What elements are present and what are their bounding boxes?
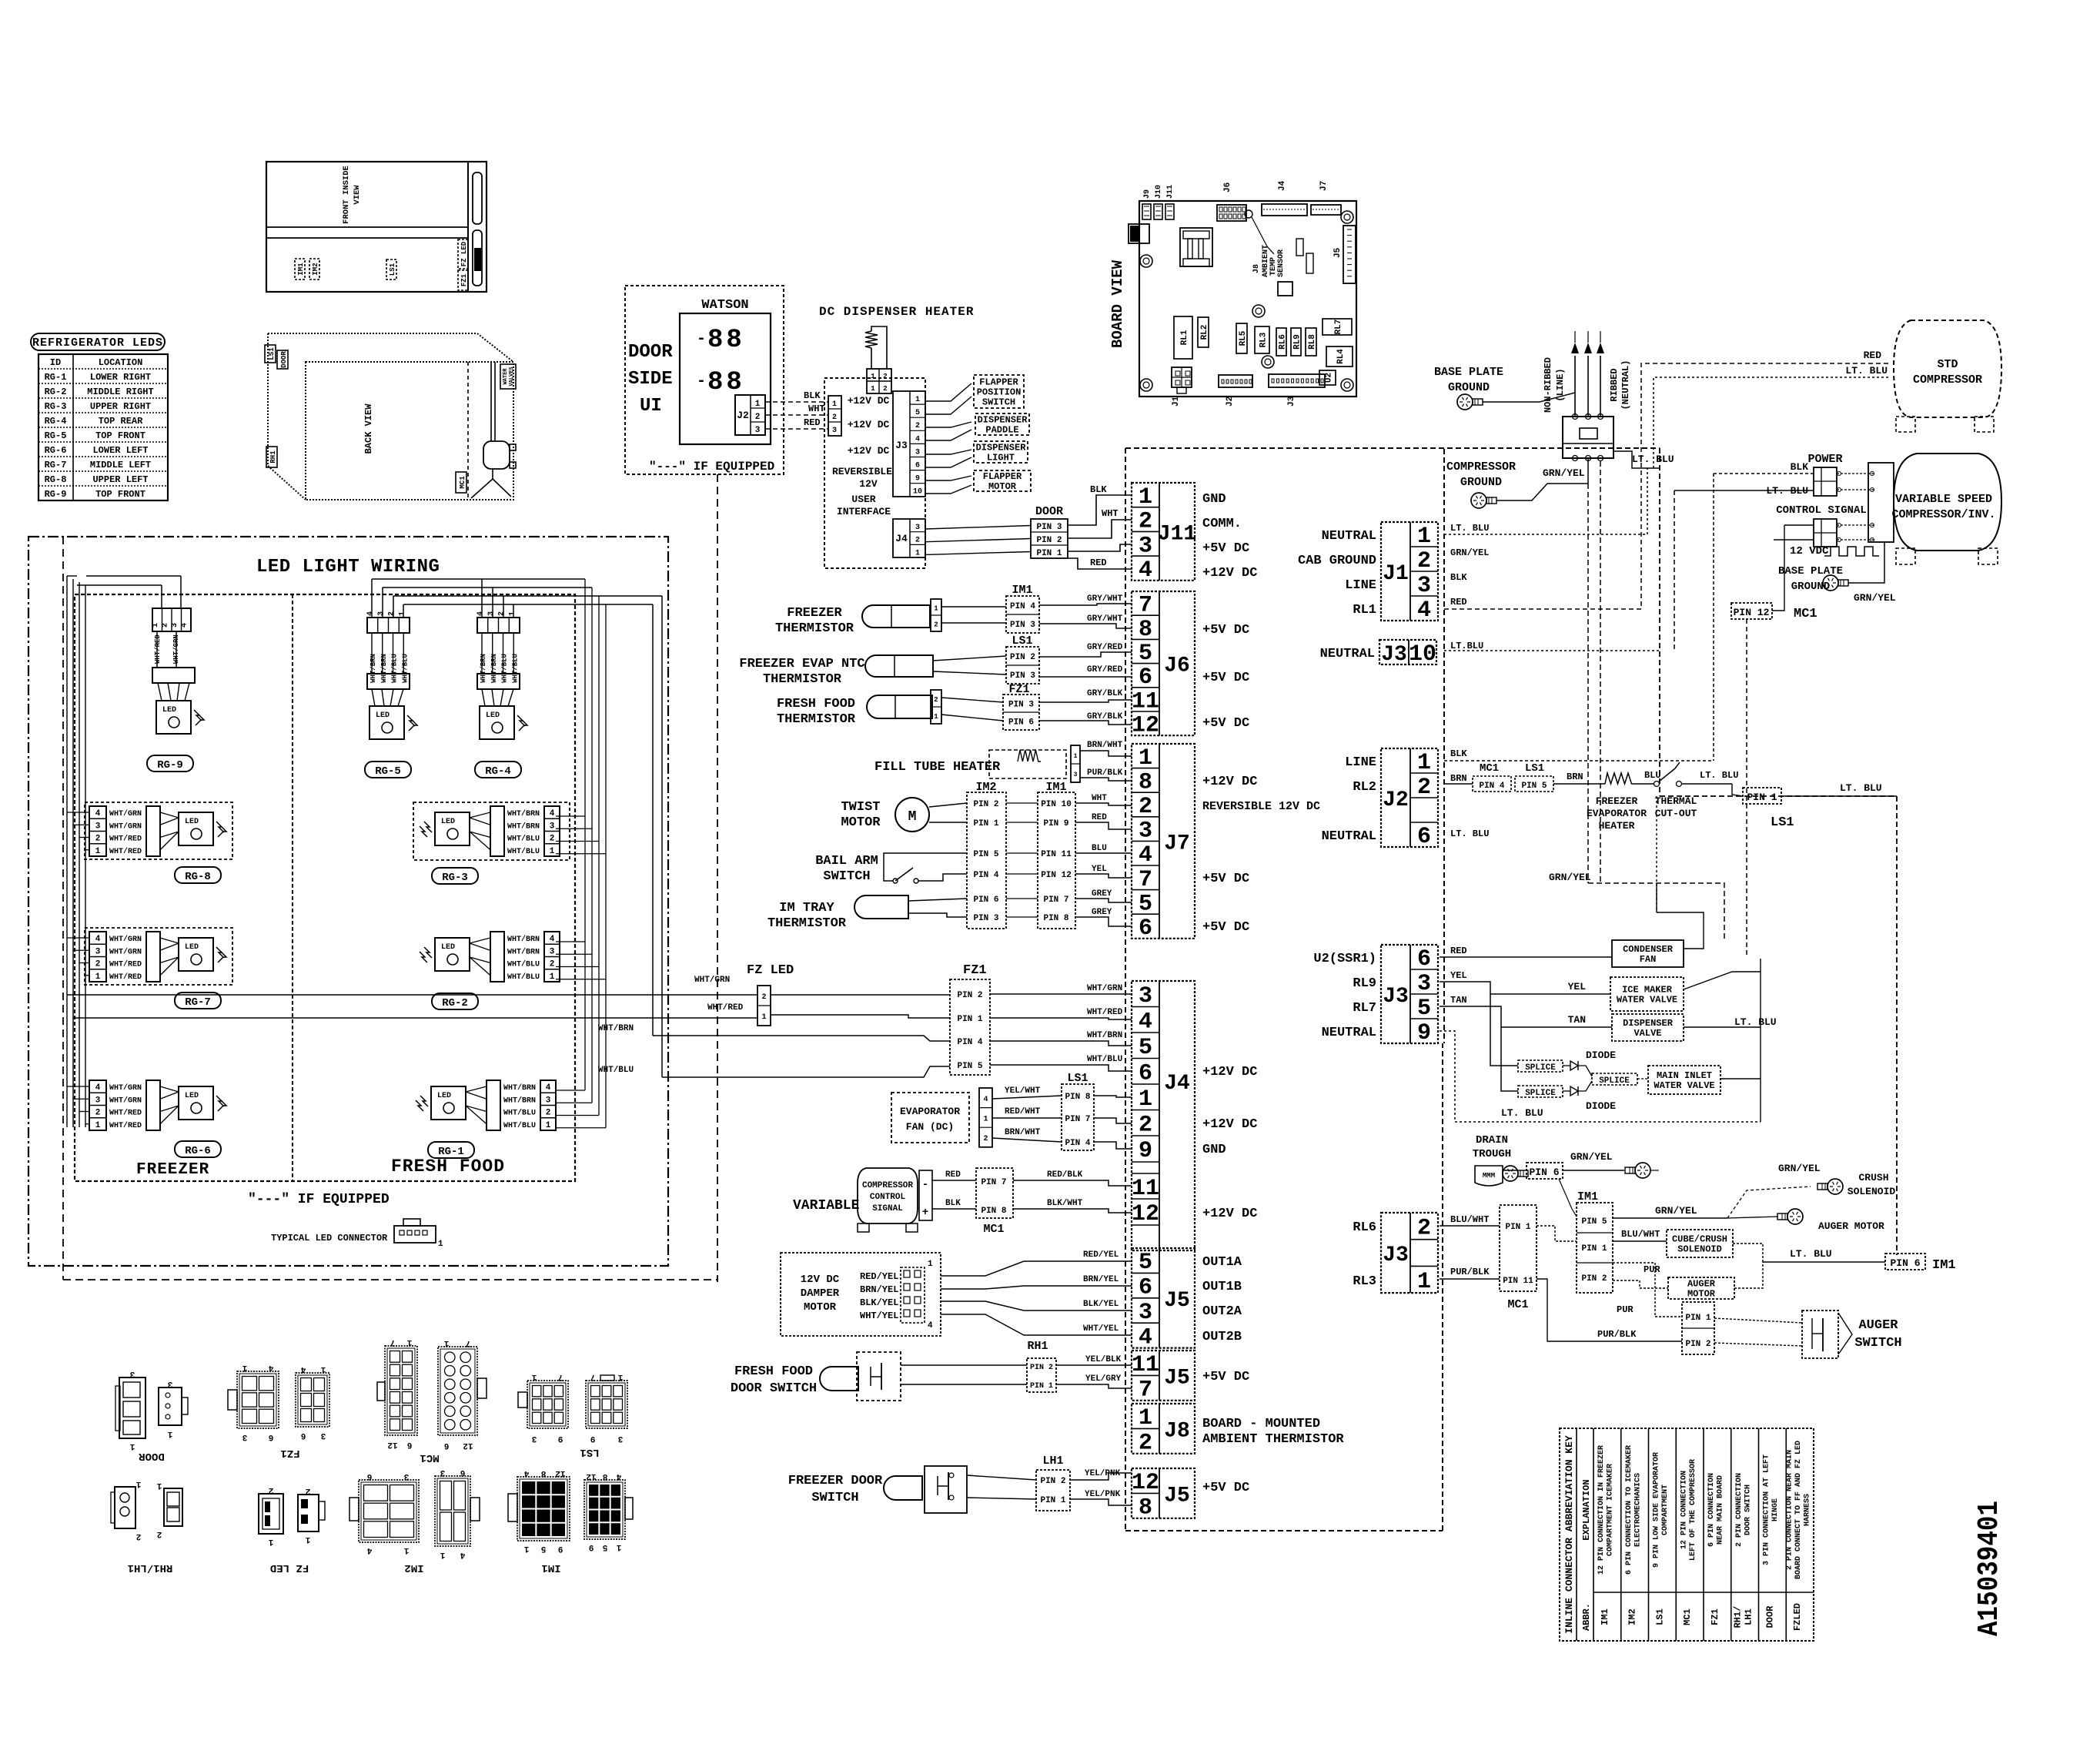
svg-text:IM1: IM1	[297, 263, 305, 276]
svg-text:RG-9: RG-9	[45, 489, 67, 500]
svg-text:CONTROL SIGNAL: CONTROL SIGNAL	[1776, 504, 1867, 517]
svg-text:LS1: LS1	[580, 1446, 599, 1458]
svg-text:WHT/GRN: WHT/GRN	[109, 947, 142, 956]
svg-text:HINGE: HINGE	[1771, 1498, 1780, 1521]
svg-text:4: 4	[95, 809, 101, 818]
svg-text:PIN 3: PIN 3	[1010, 621, 1035, 630]
svg-text:FAN (DC): FAN (DC)	[906, 1121, 954, 1133]
svg-text:RED: RED	[1450, 597, 1467, 608]
svg-text:3: 3	[1139, 983, 1152, 1009]
svg-text:2: 2	[1417, 775, 1431, 801]
svg-text:HARNESS: HARNESS	[1804, 1494, 1812, 1526]
svg-text:6: 6	[915, 462, 920, 470]
svg-text:PIN 1: PIN 1	[957, 1015, 982, 1024]
svg-text:SWITCH: SWITCH	[811, 1491, 858, 1505]
svg-text:ELECTROMECHANICS: ELECTROMECHANICS	[1634, 1473, 1642, 1547]
svg-text:RG-3: RG-3	[442, 872, 468, 884]
svg-text:IM2: IM2	[1627, 1608, 1638, 1625]
svg-text:PIN 1: PIN 1	[1685, 1314, 1710, 1323]
svg-text:4: 4	[915, 435, 920, 444]
svg-text:1: 1	[928, 1260, 933, 1269]
svg-text:5: 5	[915, 409, 920, 417]
svg-text:SOLENOID: SOLENOID	[1848, 1186, 1896, 1197]
svg-text:9: 9	[1417, 1020, 1431, 1046]
svg-text:2: 2	[1139, 1112, 1152, 1138]
svg-text:DOOR: DOOR	[1764, 1605, 1775, 1629]
svg-text:PIN 2: PIN 2	[1036, 536, 1062, 545]
svg-text:TAN: TAN	[1568, 1014, 1586, 1026]
svg-text:COMPARTMENT ICEMAKER: COMPARTMENT ICEMAKER	[1607, 1464, 1615, 1556]
svg-text:LIGHT: LIGHT	[987, 453, 1015, 464]
svg-text:RL7: RL7	[1334, 320, 1343, 335]
svg-text:IM1: IM1	[541, 1562, 560, 1574]
svg-text:RED: RED	[1092, 813, 1107, 822]
svg-text:WHT/BRN: WHT/BRN	[480, 654, 487, 683]
svg-text:DISPENSER: DISPENSER	[978, 415, 1028, 426]
svg-text:PIN 5: PIN 5	[1581, 1217, 1607, 1227]
svg-text:SWITCH: SWITCH	[982, 397, 1015, 408]
svg-text:LED: LED	[441, 818, 455, 826]
svg-text:RL9: RL9	[1293, 334, 1302, 350]
svg-text:J11: J11	[1166, 185, 1175, 199]
svg-text:+12V DC: +12V DC	[848, 395, 890, 407]
svg-text:BRN: BRN	[1567, 772, 1583, 782]
svg-text:REVERSIBLE 12V DC: REVERSIBLE 12V DC	[1202, 800, 1320, 813]
svg-text:COMPRESSOR: COMPRESSOR	[1913, 373, 1982, 387]
svg-text:PIN 2: PIN 2	[1581, 1274, 1607, 1284]
svg-text:PIN 2: PIN 2	[1040, 1477, 1065, 1486]
svg-text:WHT/BLU: WHT/BLU	[391, 654, 399, 683]
svg-text:FZ LED: FZ LED	[460, 241, 468, 266]
svg-text:AMBIENT THERMISTOR: AMBIENT THERMISTOR	[1202, 1432, 1344, 1447]
svg-text:PIN 2: PIN 2	[973, 800, 998, 809]
svg-text:+5V DC: +5V DC	[1202, 1370, 1249, 1384]
svg-text:12V DC: 12V DC	[801, 1274, 840, 1286]
svg-text:J1: J1	[1172, 396, 1181, 407]
svg-text:88: 88	[707, 368, 745, 397]
svg-text:6: 6	[269, 1432, 274, 1441]
svg-text:DOOR SWITCH: DOOR SWITCH	[731, 1381, 817, 1396]
svg-text:THERMAL: THERMAL	[1655, 795, 1697, 807]
svg-text:WHT/BLU: WHT/BLU	[503, 1121, 536, 1130]
svg-text:12: 12	[387, 1440, 397, 1449]
svg-text:J10: J10	[1155, 185, 1163, 199]
svg-text:9: 9	[558, 1544, 563, 1553]
svg-text:WHT/GRN: WHT/GRN	[694, 976, 730, 985]
svg-text:FREEZER DOOR: FREEZER DOOR	[788, 1474, 883, 1488]
svg-text:"---" IF EQUIPPED: "---" IF EQUIPPED	[649, 460, 774, 474]
svg-text:FZ1: FZ1	[1710, 1608, 1720, 1625]
svg-text:WHT/BRN: WHT/BRN	[503, 1083, 536, 1093]
svg-text:J3: J3	[1287, 396, 1296, 407]
svg-text:WHT/BLU: WHT/BLU	[401, 654, 409, 683]
svg-text:WHT: WHT	[1102, 508, 1119, 519]
svg-text:9: 9	[558, 1434, 563, 1443]
svg-text:OUT1A: OUT1A	[1202, 1255, 1242, 1270]
svg-text:RIBBED: RIBBED	[1609, 368, 1620, 401]
svg-text:WHT/RED: WHT/RED	[707, 1003, 744, 1013]
svg-text:YEL: YEL	[1450, 970, 1467, 981]
svg-text:2 PIN CONNECTION: 2 PIN CONNECTION	[1735, 1473, 1744, 1547]
svg-text:J1: J1	[1383, 562, 1409, 586]
svg-text:4: 4	[523, 1468, 529, 1478]
svg-text:GRY/BLK: GRY/BLK	[1087, 712, 1123, 721]
svg-text:PIN 3: PIN 3	[1010, 671, 1035, 681]
svg-text:WHT/BLU: WHT/BLU	[507, 960, 540, 969]
svg-text:3: 3	[915, 524, 920, 532]
svg-text:3: 3	[1074, 772, 1078, 778]
svg-text:1: 1	[832, 400, 837, 409]
svg-text:2: 2	[883, 373, 887, 380]
svg-text:WHT/GRN: WHT/GRN	[1087, 984, 1122, 993]
svg-text:PIN 1: PIN 1	[1040, 1496, 1065, 1505]
svg-text:ID: ID	[50, 357, 61, 368]
svg-text:WATER: WATER	[503, 368, 509, 385]
svg-text:1: 1	[129, 1441, 135, 1451]
svg-text:RED/WHT: RED/WHT	[1005, 1107, 1041, 1116]
svg-text:6: 6	[301, 1431, 306, 1440]
svg-text:SIGNAL: SIGNAL	[872, 1204, 903, 1213]
svg-text:2: 2	[95, 835, 101, 844]
svg-text:WHT/GRN: WHT/GRN	[109, 1096, 142, 1105]
svg-text:1: 1	[95, 1121, 101, 1130]
svg-text:3: 3	[755, 426, 761, 435]
svg-text:1: 1	[915, 549, 920, 557]
svg-text:PIN 11: PIN 11	[1503, 1277, 1533, 1286]
svg-text:-: -	[922, 1179, 928, 1191]
svg-text:FRESH FOOD: FRESH FOOD	[777, 697, 855, 711]
svg-text:TOP FRONT: TOP FRONT	[95, 430, 145, 441]
svg-text:3: 3	[1417, 573, 1431, 599]
svg-text:UI: UI	[640, 396, 662, 417]
svg-text:WHT: WHT	[1092, 794, 1107, 803]
svg-text:3: 3	[440, 1468, 445, 1477]
svg-text:LH1: LH1	[1042, 1454, 1063, 1468]
svg-text:J2: J2	[1226, 397, 1235, 407]
svg-text:4: 4	[181, 623, 189, 628]
svg-text:LS1: LS1	[1012, 634, 1032, 648]
svg-text:BLK: BLK	[1450, 748, 1467, 759]
svg-text:COMPRESSOR: COMPRESSOR	[1446, 460, 1516, 474]
svg-text:MAIN INLET: MAIN INLET	[1657, 1070, 1712, 1081]
svg-text:CUT-OUT: CUT-OUT	[1655, 808, 1697, 819]
svg-text:1: 1	[152, 623, 160, 628]
svg-text:CUBE/CRUSH: CUBE/CRUSH	[1672, 1234, 1727, 1245]
svg-text:1: 1	[1074, 753, 1078, 760]
svg-text:BRN/YEL: BRN/YEL	[1083, 1275, 1119, 1284]
svg-text:BOARD CONNECT TO FF AND FZ LED: BOARD CONNECT TO FF AND FZ LED	[1794, 1441, 1803, 1579]
svg-text:6: 6	[1417, 824, 1431, 850]
svg-text:INTERFACE: INTERFACE	[837, 506, 891, 517]
svg-text:DAMPER: DAMPER	[801, 1287, 840, 1300]
svg-text:2: 2	[157, 1529, 162, 1538]
svg-text:4: 4	[477, 611, 485, 616]
svg-text:1: 1	[755, 400, 761, 409]
svg-text:NEUTRAL: NEUTRAL	[1322, 529, 1376, 544]
svg-text:PIN 3: PIN 3	[973, 914, 998, 923]
svg-text:IM2: IM2	[404, 1562, 423, 1574]
svg-text:1: 1	[1139, 745, 1152, 772]
svg-text:8: 8	[1139, 769, 1152, 795]
svg-text:4: 4	[1139, 1009, 1152, 1035]
svg-text:PIN 3: PIN 3	[1008, 701, 1034, 710]
svg-text:CAB GROUND: CAB GROUND	[1298, 554, 1376, 568]
svg-text:6: 6	[1139, 916, 1152, 942]
svg-text:PIN 7: PIN 7	[1065, 1115, 1090, 1124]
svg-text:12: 12	[463, 1441, 473, 1450]
svg-text:BOARD - MOUNTED: BOARD - MOUNTED	[1202, 1417, 1320, 1431]
svg-text:2: 2	[934, 696, 938, 704]
svg-text:WHT/BLU: WHT/BLU	[598, 1066, 634, 1075]
svg-text:2: 2	[755, 413, 761, 422]
svg-text:DISPENSER: DISPENSER	[976, 443, 1027, 454]
svg-text:(NEUTRAL): (NEUTRAL)	[1620, 360, 1631, 410]
svg-text:AUGER: AUGER	[1687, 1279, 1716, 1290]
svg-text:M: M	[908, 809, 917, 825]
svg-text:GROUND: GROUND	[1460, 476, 1502, 489]
svg-text:NON-RIBBED: NON-RIBBED	[1543, 357, 1553, 413]
svg-text:WHT/GRN: WHT/GRN	[109, 935, 142, 944]
svg-text:INLINE CONNECTOR ABBREVIATION: INLINE CONNECTOR ABBREVIATION KEY	[1563, 1435, 1575, 1634]
svg-text:RL1: RL1	[1180, 330, 1189, 345]
svg-text:4: 4	[550, 809, 555, 818]
svg-text:FZ1: FZ1	[963, 963, 987, 978]
svg-text:3: 3	[546, 1096, 551, 1105]
svg-text:REVERSIBLE: REVERSIBLE	[832, 466, 892, 477]
svg-text:YEL/GRY: YEL/GRY	[1085, 1374, 1122, 1384]
svg-text:PIN 2: PIN 2	[1010, 653, 1035, 662]
svg-text:RL2: RL2	[1353, 780, 1376, 795]
svg-text:WHT/BLU: WHT/BLU	[503, 1109, 536, 1118]
svg-text:1: 1	[135, 1479, 141, 1488]
svg-text:LS1: LS1	[1654, 1608, 1665, 1625]
svg-text:WHT/BRN: WHT/BRN	[503, 1096, 536, 1105]
svg-text:MC1: MC1	[459, 476, 466, 489]
svg-text:FLAPPER: FLAPPER	[983, 471, 1022, 482]
svg-text:RG-2: RG-2	[442, 997, 468, 1009]
svg-text:PIN 11: PIN 11	[1041, 850, 1072, 859]
svg-text:RG-6: RG-6	[185, 1145, 211, 1157]
svg-text:GREY: GREY	[1092, 889, 1112, 899]
svg-text:10: 10	[913, 488, 922, 497]
svg-text:CONTROL: CONTROL	[870, 1193, 906, 1202]
svg-text:8: 8	[540, 1468, 546, 1478]
svg-text:12 VDC: 12 VDC	[1790, 545, 1829, 557]
svg-text:SPLICE: SPLICE	[1525, 1063, 1556, 1073]
svg-text:LT. BLU: LT. BLU	[1700, 770, 1738, 781]
svg-text:MC1: MC1	[1480, 762, 1499, 775]
svg-text:MIDDLE LEFT: MIDDLE LEFT	[90, 460, 151, 470]
svg-text:3: 3	[1139, 818, 1152, 845]
svg-text:4: 4	[1417, 598, 1431, 624]
svg-text:PIN 8: PIN 8	[1043, 914, 1068, 923]
svg-text:FREEZER EVAP NTC: FREEZER EVAP NTC	[739, 657, 864, 671]
svg-text:2: 2	[1139, 1431, 1152, 1457]
svg-text:NEAR MAIN BOARD: NEAR MAIN BOARD	[1717, 1475, 1725, 1545]
svg-text:1: 1	[550, 847, 555, 856]
svg-text:RG-5: RG-5	[45, 430, 67, 441]
svg-text:AUGER: AUGER	[1858, 1318, 1898, 1333]
svg-text:YEL: YEL	[1568, 981, 1587, 993]
svg-text:6: 6	[444, 1441, 450, 1450]
svg-text:6 PIN CONNECTION: 6 PIN CONNECTION	[1707, 1473, 1716, 1547]
svg-text:BLK/YEL: BLK/YEL	[1083, 1300, 1119, 1309]
svg-text:5: 5	[1139, 891, 1152, 917]
svg-text:WHT/YEL: WHT/YEL	[860, 1311, 898, 1321]
svg-text:LS1: LS1	[1067, 1072, 1088, 1085]
svg-text:POSITION: POSITION	[977, 387, 1022, 398]
svg-text:J7: J7	[1319, 181, 1329, 191]
svg-text:PIN 1: PIN 1	[1581, 1244, 1607, 1254]
svg-text:PIN 7: PIN 7	[1043, 895, 1068, 905]
svg-text:3: 3	[403, 1471, 409, 1481]
svg-text:LED LIGHT WIRING: LED LIGHT WIRING	[256, 557, 440, 577]
svg-text:DOOR: DOOR	[280, 351, 288, 368]
svg-text:J4: J4	[1164, 1072, 1190, 1096]
svg-text:1: 1	[761, 1013, 766, 1022]
svg-text:RL8: RL8	[1308, 334, 1317, 350]
svg-text:ABBR.: ABBR.	[1581, 1603, 1592, 1631]
svg-text:BLK: BLK	[804, 390, 821, 401]
svg-text:WHT/GRN: WHT/GRN	[109, 822, 142, 831]
svg-text:WHT/GRN: WHT/GRN	[109, 1083, 142, 1093]
svg-text:2: 2	[883, 385, 887, 393]
svg-text:12 PIN CONNECTION: 12 PIN CONNECTION	[1680, 1471, 1688, 1549]
svg-text:GRY/RED: GRY/RED	[1087, 665, 1123, 675]
svg-text:3: 3	[1139, 533, 1152, 559]
svg-text:7: 7	[466, 1338, 471, 1347]
svg-text:WHT/BRN: WHT/BRN	[370, 654, 377, 683]
svg-text:4: 4	[1139, 1324, 1152, 1351]
svg-text:1: 1	[242, 1363, 247, 1372]
svg-text:"---" IF EQUIPPED: "---" IF EQUIPPED	[248, 1192, 390, 1207]
svg-text:FREEZER: FREEZER	[136, 1161, 209, 1179]
svg-text:11: 11	[1132, 1176, 1159, 1202]
svg-text:RH1/: RH1/	[1733, 1606, 1744, 1629]
svg-text:BLK/YEL: BLK/YEL	[860, 1297, 898, 1308]
svg-text:LED: LED	[441, 943, 455, 952]
svg-text:BACK VIEW: BACK VIEW	[363, 403, 374, 454]
svg-text:WHT/RED: WHT/RED	[109, 1109, 142, 1118]
svg-text:FREEZER: FREEZER	[1596, 795, 1638, 807]
svg-text:PIN 1: PIN 1	[1505, 1223, 1530, 1232]
svg-text:12: 12	[555, 1468, 565, 1478]
svg-text:2 PIN CONNECTION NEAR MAIN: 2 PIN CONNECTION NEAR MAIN	[1786, 1450, 1794, 1570]
svg-text:PIN 4: PIN 4	[1479, 782, 1504, 791]
svg-text:4: 4	[460, 1550, 465, 1559]
svg-text:88: 88	[707, 326, 745, 355]
svg-text:3: 3	[550, 822, 555, 831]
svg-text:2: 2	[306, 1486, 311, 1495]
svg-text:J8: J8	[1252, 264, 1261, 273]
svg-text:J5: J5	[1164, 1289, 1190, 1313]
svg-text:WHT/BRN: WHT/BRN	[490, 654, 498, 683]
svg-text:MOTOR: MOTOR	[841, 815, 881, 830]
svg-text:-: -	[697, 330, 706, 348]
svg-text:LS1: LS1	[268, 347, 276, 360]
svg-text:PIN 10: PIN 10	[1041, 800, 1072, 809]
svg-text:PIN 1: PIN 1	[1030, 1382, 1053, 1391]
svg-text:2: 2	[498, 611, 507, 616]
svg-text:RED: RED	[1090, 557, 1107, 568]
svg-text:UPPER LEFT: UPPER LEFT	[92, 474, 148, 485]
svg-text:LT. BLU: LT. BLU	[1501, 1107, 1543, 1119]
svg-text:PIN 5: PIN 5	[1521, 782, 1547, 791]
svg-text:RG-8: RG-8	[45, 474, 67, 485]
svg-text:A15039401: A15039401	[1973, 1501, 2006, 1636]
svg-text:WHT/BLU: WHT/BLU	[501, 654, 509, 683]
svg-text:1: 1	[508, 611, 517, 616]
svg-text:LS1: LS1	[1525, 762, 1544, 775]
svg-text:6: 6	[1139, 1275, 1152, 1301]
svg-text:DOOR: DOOR	[628, 342, 673, 363]
svg-text:SPLICE: SPLICE	[1599, 1076, 1630, 1086]
svg-text:+12V DC: +12V DC	[1202, 775, 1257, 789]
svg-text:5: 5	[1139, 1035, 1152, 1061]
svg-text:3: 3	[531, 1434, 537, 1443]
svg-text:+12V DC: +12V DC	[1202, 1117, 1257, 1132]
svg-text:BRN/WHT: BRN/WHT	[1087, 741, 1123, 750]
svg-text:2: 2	[915, 537, 920, 545]
svg-text:PIN 7: PIN 7	[981, 1178, 1006, 1187]
svg-text:THERMISTOR: THERMISTOR	[777, 712, 856, 727]
svg-text:6: 6	[367, 1471, 373, 1481]
svg-text:LEFT OF THE COMPRESSOR: LEFT OF THE COMPRESSOR	[1689, 1459, 1697, 1561]
svg-text:DIODE: DIODE	[1586, 1100, 1616, 1112]
svg-text:2: 2	[95, 1109, 101, 1118]
svg-text:+12V DC: +12V DC	[848, 445, 890, 457]
svg-text:1: 1	[438, 1240, 443, 1249]
svg-text:WHT/BRN: WHT/BRN	[1087, 1031, 1122, 1040]
svg-text:RED: RED	[1450, 946, 1467, 956]
svg-text:+5V DC: +5V DC	[1202, 1481, 1249, 1495]
svg-text:GRN/YEL: GRN/YEL	[1854, 592, 1896, 604]
svg-text:LINE: LINE	[1345, 578, 1376, 593]
svg-text:1: 1	[617, 1372, 623, 1381]
svg-text:PUR: PUR	[1617, 1304, 1634, 1315]
svg-text:3: 3	[1139, 1300, 1152, 1326]
svg-text:LS1: LS1	[1771, 815, 1794, 830]
svg-text:WHT/RED: WHT/RED	[109, 972, 142, 982]
svg-text:RH1: RH1	[269, 450, 277, 464]
svg-text:7: 7	[590, 1372, 596, 1381]
svg-text:PUR: PUR	[1644, 1264, 1660, 1275]
svg-text:1: 1	[616, 1542, 621, 1552]
svg-text:2: 2	[915, 422, 920, 430]
svg-text:10: 10	[1409, 641, 1436, 668]
svg-text:EVAPORATOR: EVAPORATOR	[900, 1106, 960, 1117]
svg-text:12V: 12V	[859, 478, 878, 490]
svg-text:LED: LED	[162, 706, 176, 715]
svg-text:4: 4	[550, 935, 555, 944]
svg-text:DISPENSER: DISPENSER	[1623, 1018, 1674, 1029]
svg-text:J2: J2	[737, 410, 749, 421]
svg-text:BRN/YEL: BRN/YEL	[860, 1284, 898, 1295]
svg-text:6: 6	[407, 1440, 413, 1449]
svg-text:IM TRAY: IM TRAY	[779, 901, 834, 916]
svg-text:+12V DC: +12V DC	[1202, 566, 1257, 581]
svg-text:FREEZER: FREEZER	[787, 606, 842, 621]
svg-text:2: 2	[95, 960, 101, 969]
svg-text:WHT/BRN: WHT/BRN	[507, 935, 540, 944]
svg-text:1: 1	[443, 1338, 449, 1347]
svg-text:NEUTRAL: NEUTRAL	[1320, 647, 1375, 661]
svg-text:VIEW: VIEW	[353, 185, 362, 205]
svg-text:1: 1	[1139, 484, 1152, 510]
svg-text:WHT/BLU: WHT/BLU	[511, 654, 519, 683]
svg-text:PIN 2: PIN 2	[1685, 1340, 1710, 1349]
svg-text:3: 3	[320, 1431, 326, 1440]
